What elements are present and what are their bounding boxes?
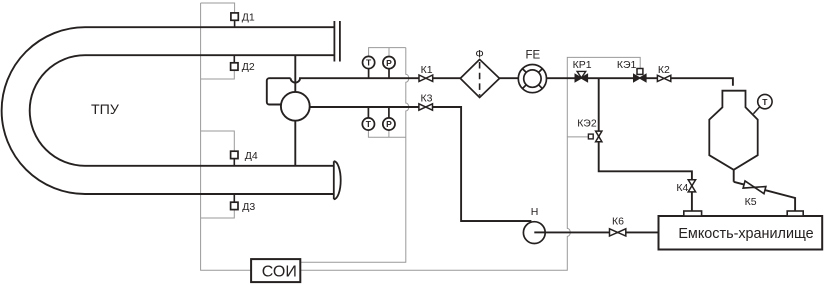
- instrument P1 stem: [388, 69, 390, 79]
- valve К4: [688, 180, 695, 192]
- instrument P2 (bottom pressure): [383, 118, 395, 130]
- sensor Д3 stem: [233, 194, 235, 202]
- wire gray bus to СОИ: [201, 3, 252, 270]
- valve К6: [610, 229, 626, 236]
- tank left flange stub: [684, 211, 702, 216]
- wire branch down from top channel through КЭ2 to К4: [599, 78, 692, 211]
- svg-text:Т: Т: [366, 58, 372, 68]
- svg-text:КР1: КР1: [573, 59, 592, 71]
- sensor Д3: [231, 202, 238, 209]
- sensor Д2 stem: [233, 55, 235, 63]
- wire pump outlet to tank: [534, 231, 658, 233]
- instrument T1 (top temperature): [363, 56, 375, 68]
- filter Ф dashed element: [479, 62, 481, 96]
- instrument T2 (bottom temperature): [362, 118, 374, 130]
- valve КЭ2 actuator square: [588, 134, 593, 139]
- wire СОИ to valve actuators (gray): [300, 57, 640, 270]
- svg-text:К2: К2: [658, 64, 670, 76]
- flow element FE inner circle: [524, 70, 541, 87]
- instrument T1 stem: [368, 69, 370, 79]
- wire four-way left loop: [267, 78, 291, 104]
- wire from top pipe down to four-way: [294, 55, 296, 92]
- valve КЭ1 body (filled): [634, 75, 646, 82]
- wire СОИ to КЭ2 actuator (gray): [567, 136, 591, 138]
- flange at top pipe end: [334, 21, 340, 62]
- wire Д3 signal (gray): [201, 210, 235, 218]
- drain line to К5 and right tank stub: [734, 182, 795, 211]
- vessel drain stub: [733, 170, 735, 182]
- end cap at bottom pipe end: [334, 161, 341, 199]
- wire from four-way down to bottom pipe: [294, 121, 296, 166]
- svg-text:Ф: Ф: [475, 48, 483, 60]
- svg-text:К3: К3: [421, 93, 433, 105]
- valve К3: [419, 104, 433, 110]
- wire Д1 signal (gray): [201, 3, 235, 13]
- svg-text:Т: Т: [762, 97, 768, 107]
- svg-text:Д3: Д3: [242, 201, 255, 213]
- filter Ф body: [460, 59, 499, 97]
- svg-text:ТПУ: ТПУ: [91, 102, 120, 118]
- svg-text:Д1: Д1: [242, 11, 255, 23]
- vessel thermometer connector: [753, 107, 759, 114]
- four-way valve circle: [281, 92, 310, 121]
- svg-text:К6: К6: [612, 216, 624, 228]
- control valve КР1 body (filled): [575, 75, 587, 82]
- svg-text:FE: FE: [525, 49, 540, 61]
- svg-text:Емкость-хранилище: Емкость-хранилище: [678, 226, 813, 242]
- wire Д2 signal (gray): [201, 71, 235, 80]
- flow element FE spokes: [522, 69, 542, 89]
- svg-text:Д4: Д4: [245, 150, 258, 162]
- ТПУ loop outer pipe wall: [2, 27, 335, 194]
- svg-text:СОИ: СОИ: [262, 263, 297, 280]
- pump Н shaft line: [534, 231, 545, 233]
- pump Н circle: [523, 222, 545, 244]
- valve К1: [419, 75, 433, 81]
- sensor Д4: [231, 151, 238, 158]
- sensor Д1: [231, 13, 238, 20]
- wire top T P instruments to vertical bus (gray): [369, 48, 406, 57]
- wire instrument bus vertical with hops (gray): [300, 48, 409, 263]
- sensor Д2: [231, 63, 238, 70]
- wire top channel with dip over crossing: [291, 78, 733, 86]
- svg-text:КЭ1: КЭ1: [617, 59, 637, 71]
- storage tank box: [659, 216, 823, 250]
- valve К5 (rotated): [743, 181, 766, 194]
- svg-text:К4: К4: [676, 182, 688, 194]
- wire Д4 signal (gray): [201, 131, 235, 151]
- svg-text:К1: К1: [421, 64, 433, 76]
- ТПУ loop inner pipe wall: [30, 55, 335, 166]
- sensor Д4 stem: [233, 159, 235, 166]
- pump Н inlet line: [461, 220, 531, 222]
- wire bottom channel: [310, 107, 532, 221]
- valve К2: [657, 75, 670, 81]
- instrument P1 (top pressure): [383, 57, 395, 69]
- svg-text:Д2: Д2: [242, 61, 255, 73]
- sensor Д1 stem: [234, 20, 236, 27]
- СОИ box: [251, 259, 300, 282]
- instrument T2 stem: [367, 107, 369, 118]
- valve КЭ2 body: [596, 131, 602, 142]
- svg-text:Р: Р: [386, 58, 392, 68]
- svg-text:КЭ2: КЭ2: [577, 117, 597, 129]
- flow element FE outer circle: [518, 65, 546, 93]
- valve КЭ1 actuator square: [637, 69, 643, 75]
- tank right flange stub: [787, 211, 803, 216]
- svg-text:Р: Р: [386, 119, 392, 129]
- vessel thermometer Т circle: [758, 94, 772, 108]
- measuring vessel body: [709, 91, 757, 170]
- svg-text:Т: Т: [366, 119, 372, 129]
- control valve КР1 actuator triangle: [577, 71, 586, 78]
- instrument P2 stem: [388, 107, 390, 118]
- wire bottom T P instruments to vertical bus (gray): [368, 130, 405, 137]
- svg-text:К5: К5: [745, 196, 757, 208]
- svg-text:Н: Н: [531, 206, 539, 218]
